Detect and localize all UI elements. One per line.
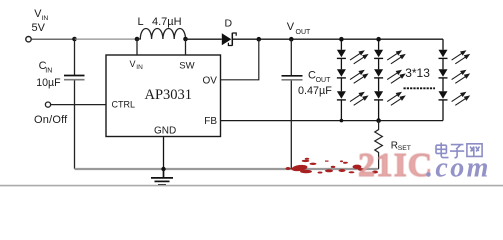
LED string 1 arrows <box>350 51 367 105</box>
svg-text:GND: GND <box>154 125 176 136</box>
LED string 3 arrows <box>452 51 469 105</box>
wire diode to VOUT rail <box>233 38 443 40</box>
node LED2 top <box>376 37 381 42</box>
inductor L <box>137 28 186 39</box>
node RSET top junction <box>376 118 381 123</box>
terminal On/Off <box>45 102 50 107</box>
wire CIN branch upper <box>74 39 76 75</box>
svg-text:10µF: 10µF <box>36 77 61 89</box>
svg-text:V: V <box>287 21 295 33</box>
watermark CJK dianziwang <box>436 143 482 158</box>
svg-text:21IC: 21IC <box>358 147 433 184</box>
svg-text:D: D <box>225 18 233 30</box>
wire VIN terminal to CIN node <box>31 38 74 40</box>
svg-text:IN: IN <box>45 67 52 74</box>
LED string 2 arrows <box>387 51 404 105</box>
svg-text:OUT: OUT <box>296 29 312 36</box>
wire VIN pin <box>136 39 138 55</box>
svg-text:5V: 5V <box>32 22 46 34</box>
svg-text:IN: IN <box>136 64 143 71</box>
wire SW pin <box>185 39 187 55</box>
LED string 2 <box>374 39 383 120</box>
svg-text:OUT: OUT <box>316 77 332 84</box>
ellipsis dashed line <box>404 87 436 89</box>
red speckles <box>286 158 379 175</box>
svg-text:0.47µF: 0.47µF <box>298 85 332 97</box>
ground <box>151 169 173 185</box>
capacitor COUT <box>282 76 303 80</box>
LED string 3 <box>439 39 448 120</box>
svg-text:SW: SW <box>179 61 194 72</box>
resistor RSET <box>375 121 383 169</box>
label VIN 5V <box>32 8 49 34</box>
svg-text:On/Off: On/Off <box>34 114 68 126</box>
wire COUT branch upper <box>290 39 292 75</box>
svg-text:V: V <box>130 59 136 69</box>
page divider line <box>0 185 503 187</box>
wire GND pin <box>163 137 165 170</box>
node LED1 top <box>339 37 344 42</box>
node LED bus string1 <box>340 119 344 123</box>
diode D schottky <box>222 33 236 46</box>
wire L to diode <box>186 38 222 40</box>
wire OV branch <box>221 39 259 80</box>
label VOUT <box>287 21 311 36</box>
LED string 1 <box>337 39 346 120</box>
node CIN top junction <box>72 37 77 42</box>
wire On/Off to CTRL <box>51 104 106 106</box>
label COUT 0.47uF <box>298 69 332 97</box>
wire COUT branch lower <box>290 81 292 169</box>
node GND junction <box>161 167 165 171</box>
svg-text:OV: OV <box>203 75 218 86</box>
wire ground rail bottom <box>75 168 379 170</box>
svg-text:3*13: 3*13 <box>405 66 430 80</box>
label CIN 10uF <box>36 60 61 89</box>
label RSET <box>391 140 411 152</box>
wire FB to LED bus <box>221 120 443 122</box>
node L right junction <box>183 37 188 42</box>
svg-text:L: L <box>138 16 144 28</box>
pin VIN label <box>130 59 144 71</box>
label L 4.7uH <box>138 16 182 28</box>
wire CIN node to L <box>75 38 138 40</box>
node L left junction <box>135 37 140 42</box>
capacitor CIN <box>64 76 85 80</box>
IC U1 AP3031 <box>106 55 221 137</box>
svg-text:FB: FB <box>204 116 217 127</box>
svg-text:CTRL: CTRL <box>112 99 136 109</box>
wire CIN branch lower <box>74 80 76 168</box>
terminal VIN <box>26 37 31 42</box>
node OV junction <box>257 37 262 42</box>
node COUT junction <box>289 37 294 42</box>
svg-text:4.7µH: 4.7µH <box>152 16 182 28</box>
svg-text:AP3031: AP3031 <box>145 87 193 103</box>
